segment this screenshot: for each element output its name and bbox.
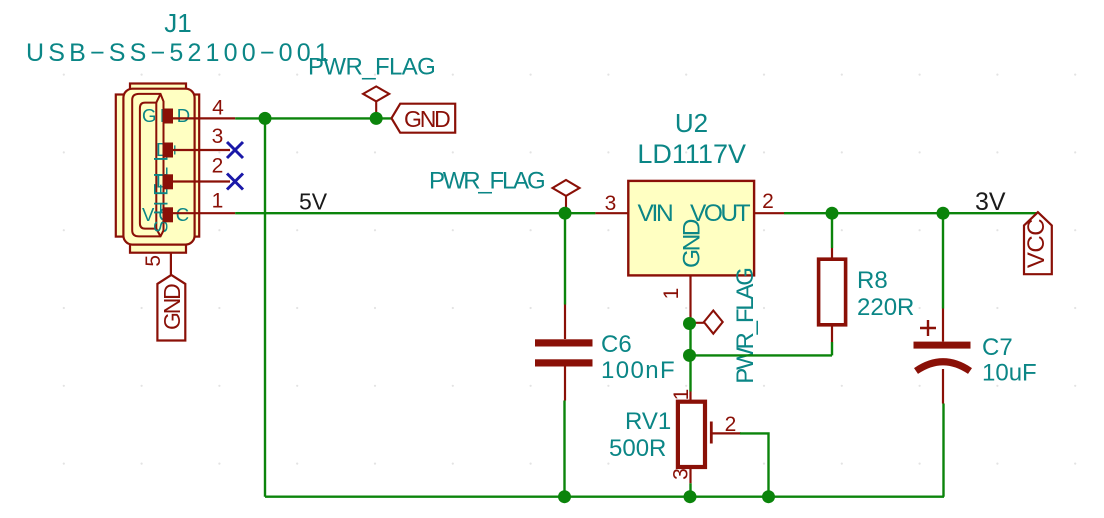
resistor R8 (819, 213, 846, 355)
pin pad 1 of J1 (163, 207, 174, 222)
capacitor C6 (535, 213, 593, 497)
U2 pin 1 line (689, 275, 691, 318)
svg-text:U2: U2 (675, 108, 708, 138)
pin pad 2 of J1 (163, 174, 174, 189)
junction 5V at C6 (559, 207, 572, 220)
regulator U2 body (628, 181, 754, 276)
svg-text:VIN: VIN (638, 200, 673, 227)
svg-text:1: 1 (212, 190, 224, 213)
wire pin4 to GND label (235, 117, 391, 119)
U2 pin 2 line (754, 212, 784, 214)
svg-text:5V: 5V (299, 189, 328, 215)
svg-text:GND: GND (159, 284, 185, 330)
svg-text:3V: 3V (975, 188, 1006, 216)
pin pad 3 of J1 (163, 143, 174, 158)
wire GND vertical drop (264, 118, 266, 496)
svg-text:100nF: 100nF (601, 357, 676, 384)
wire junction to R8 bottom (690, 354, 833, 356)
svg-text:3: 3 (605, 192, 617, 215)
svg-text:GND: GND (404, 106, 450, 132)
power label VCC (1023, 212, 1052, 274)
svg-text:LD1117V: LD1117V (637, 139, 746, 169)
pin 1 line of J1 (166, 212, 235, 214)
wire U2 GND down to RV1 (689, 318, 691, 392)
pin 3 line of J1 (166, 149, 230, 151)
power flag PF2 diamond (5V) (553, 180, 580, 213)
pin 4 line of J1 (166, 117, 235, 119)
svg-text:2: 2 (725, 413, 737, 436)
pin pad 4 of J1 (163, 109, 174, 124)
no-connect flag on pin 3 (227, 142, 243, 158)
wire 5V net (235, 212, 595, 214)
hierarchical label GND (bottom of J1) (157, 275, 185, 341)
svg-text:USB−SS−52100−001: USB−SS−52100−001 (26, 39, 333, 67)
svg-text:C6: C6 (601, 331, 632, 358)
svg-text:PWR_FLAG: PWR_FLAG (732, 269, 759, 384)
connector J1 body (116, 84, 199, 253)
junction rail at C6 (558, 490, 571, 503)
pin 2 line of J1 (166, 180, 230, 182)
power flag PF3 diamond (GND net) (690, 311, 723, 334)
junction U2 GND pwrflag (683, 317, 696, 330)
capacitor C7 (914, 213, 971, 497)
wire U2 VOUT to VCC (784, 212, 1037, 214)
svg-text:VCC: VCC (1023, 219, 1050, 268)
junction 3V at C7 (937, 207, 950, 220)
svg-text:RV1: RV1 (625, 408, 671, 435)
svg-text:PWR_FLAG: PWR_FLAG (429, 168, 544, 195)
junction rail at RV1 (684, 490, 697, 503)
wire RV1 wiper to rail (740, 433, 769, 496)
junction pwrflag-gnd (370, 112, 383, 125)
wire bottom GND rail (265, 496, 944, 498)
svg-text:1: 1 (670, 389, 693, 401)
pin 5 line of J1 (170, 253, 172, 275)
svg-text:10uF: 10uF (982, 360, 1037, 387)
svg-text:1: 1 (660, 288, 683, 300)
svg-text:3: 3 (212, 125, 224, 148)
svg-text:4: 4 (212, 96, 224, 119)
U2 pin 3 line (595, 212, 628, 214)
power flag PF1 diamond (363, 86, 389, 118)
svg-text:5: 5 (142, 255, 165, 267)
svg-text:500R: 500R (609, 435, 666, 462)
svg-text:220R: 220R (857, 294, 914, 321)
hierarchical label GND (top) (392, 104, 456, 133)
junction rail at wiper (762, 490, 775, 503)
junction 3V at R8 (826, 207, 839, 220)
svg-text:R8: R8 (857, 267, 888, 294)
potentiometer RV1 (678, 392, 741, 497)
junction GND to R8 (683, 349, 696, 362)
svg-text:GND: GND (679, 219, 706, 268)
junction pin4-drop (259, 112, 272, 125)
svg-text:2: 2 (762, 190, 774, 213)
no-connect flag on pin 2 (227, 174, 243, 190)
svg-text:C7: C7 (982, 334, 1013, 361)
svg-text:PWR_FLAG: PWR_FLAG (308, 54, 435, 81)
svg-text:3: 3 (670, 468, 693, 480)
svg-text:2: 2 (212, 155, 224, 178)
svg-text:J1: J1 (164, 8, 191, 38)
